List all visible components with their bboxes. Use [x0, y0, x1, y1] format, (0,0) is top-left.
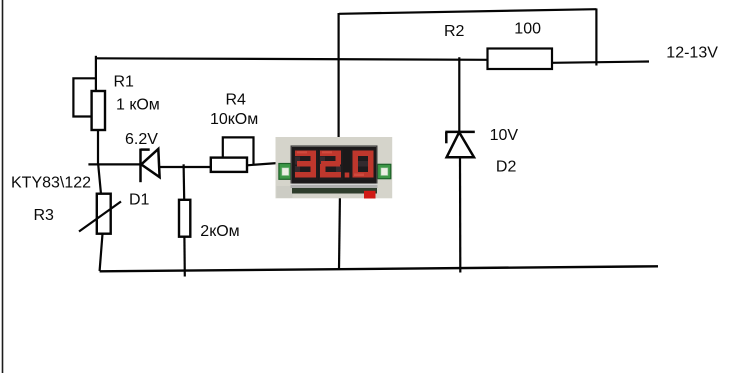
wire D1 to R4	[159, 166, 211, 168]
svg-text:12-13V: 12-13V	[666, 45, 718, 62]
thermistor R3 diagonal stroke	[79, 202, 121, 232]
wire R3 bottom lead	[100, 234, 103, 271]
resistor R1	[92, 91, 105, 130]
wire D2 top lead	[458, 57, 460, 132]
ghost digit3 g	[356, 161, 368, 167]
wire right bypass vertical	[595, 9, 597, 66]
diode D1 zener cathode bar	[139, 149, 142, 183]
wire main positive rail right	[552, 62, 649, 63]
svg-text:D1: D1	[129, 192, 150, 209]
svg-text:R2: R2	[444, 23, 465, 40]
svg-text:R4: R4	[226, 92, 247, 109]
digit 3: a,b,g,c,d	[295, 151, 316, 157]
wire R4 to display	[247, 163, 284, 166]
resistor 2kOm body	[179, 200, 190, 237]
digit 2: a,b,g,e,d	[320, 151, 341, 157]
svg-text:2кОм: 2кОм	[200, 223, 239, 240]
thermistor R3 body	[97, 194, 111, 234]
wire display bottom lead	[339, 191, 340, 269]
svg-text:D2: D2	[496, 159, 517, 176]
diode D1 triangle	[141, 149, 159, 177]
svg-text:6.2V: 6.2V	[125, 131, 158, 148]
wire 2k top lead	[183, 164, 186, 200]
wire R4 wiper loop	[223, 137, 254, 164]
bright glints on digits	[297, 151, 364, 176]
wire R1 bottom lead	[97, 130, 99, 165]
svg-text:10V: 10V	[490, 127, 519, 144]
wire D2 bottom lead	[459, 157, 461, 272]
wire R1 wiper loop	[73, 78, 96, 116]
ghost digit2 f,c	[320, 157, 325, 165]
resistor R4 body	[211, 158, 247, 172]
ghost digit1 f,e	[295, 157, 300, 165]
diode D2 triangle	[447, 132, 474, 157]
digit 0: a,b,c,d,e,f	[353, 151, 374, 157]
svg-text:R1: R1	[114, 74, 135, 91]
wire R1 top lead	[95, 56, 97, 92]
wire display top vertical	[338, 13, 340, 144]
wire R3 top lead	[98, 164, 101, 194]
wire 2k bottom lead	[183, 237, 186, 277]
decimal point	[345, 173, 350, 178]
resistor R2 body	[488, 49, 553, 70]
digit cells	[294, 149, 318, 180]
voltmeter display module photo	[276, 137, 393, 199]
diode D2 zener hook	[445, 132, 448, 143]
svg-text:R3: R3	[34, 207, 55, 224]
svg-text:KTY83\122: KTY83\122	[11, 175, 91, 192]
wire main positive rail left	[96, 58, 488, 60]
diode D1 zener hook	[141, 148, 150, 151]
wire bottom ground rail	[100, 266, 658, 271]
wire top bypass horizontal	[339, 9, 596, 14]
svg-text:1 кОм: 1 кОм	[116, 97, 160, 114]
diode D2 zener cathode bar	[445, 131, 475, 134]
wire node A horizontal to D1	[88, 163, 140, 165]
svg-text:10кОм: 10кОм	[210, 111, 258, 128]
svg-text:100: 100	[514, 21, 541, 38]
display seven-segment digits 32.0	[294, 149, 375, 180]
